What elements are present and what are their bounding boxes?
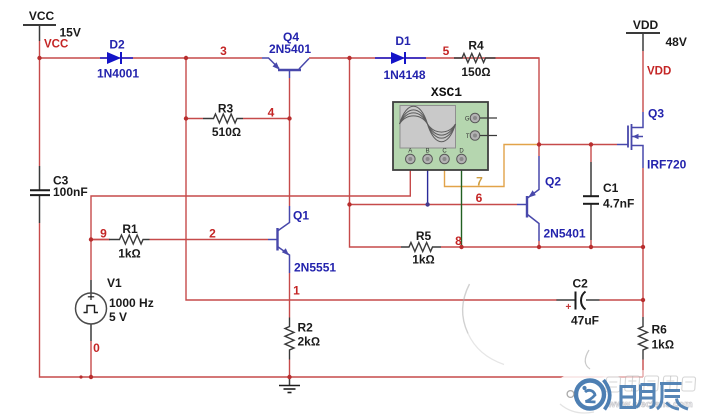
svg-text:6: 6 <box>476 191 483 205</box>
svg-text:R4: R4 <box>468 39 484 53</box>
svg-text:9: 9 <box>100 227 107 241</box>
svg-text:D1: D1 <box>395 34 411 48</box>
svg-text:0: 0 <box>93 341 100 355</box>
svg-text:VDD: VDD <box>647 66 671 78</box>
svg-text:15V: 15V <box>60 26 81 40</box>
svg-text:T: T <box>466 134 470 140</box>
svg-text:100nF: 100nF <box>53 185 88 199</box>
svg-text:2N5401: 2N5401 <box>269 42 311 56</box>
svg-text:D: D <box>459 149 464 155</box>
svg-text:Q3: Q3 <box>648 107 664 121</box>
svg-text:VCC: VCC <box>44 39 68 51</box>
svg-text:B: B <box>426 149 430 155</box>
svg-text:R3: R3 <box>218 102 234 116</box>
svg-text:R6: R6 <box>652 323 668 337</box>
svg-text:G: G <box>465 117 470 123</box>
svg-text:C1: C1 <box>603 181 619 195</box>
svg-text:C2: C2 <box>573 277 589 291</box>
svg-text:1000 Hz: 1000 Hz <box>109 296 154 310</box>
svg-text:+: + <box>566 302 572 313</box>
svg-text:1N4001: 1N4001 <box>97 67 139 81</box>
svg-text:VDD: VDD <box>633 18 659 32</box>
svg-text:150Ω: 150Ω <box>461 65 490 79</box>
svg-text:R5: R5 <box>416 229 432 243</box>
svg-text:1kΩ: 1kΩ <box>118 247 141 261</box>
svg-text:2: 2 <box>209 227 216 241</box>
svg-text:510Ω: 510Ω <box>212 125 241 139</box>
svg-text:Q2: Q2 <box>545 175 561 189</box>
svg-text:1: 1 <box>293 284 300 298</box>
svg-text:8: 8 <box>455 234 462 248</box>
svg-text:V1: V1 <box>107 276 122 290</box>
svg-text:4: 4 <box>268 106 275 120</box>
svg-text:1kΩ: 1kΩ <box>412 253 435 267</box>
svg-text:2N5401: 2N5401 <box>544 227 586 241</box>
svg-text:A: A <box>408 149 412 155</box>
svg-text:1kΩ: 1kΩ <box>652 338 675 352</box>
svg-text:R2: R2 <box>298 321 314 335</box>
svg-text:4.7nF: 4.7nF <box>603 197 634 211</box>
svg-text:C: C <box>442 149 447 155</box>
svg-text:48V: 48V <box>666 35 687 49</box>
svg-text:47uF: 47uF <box>571 314 599 328</box>
svg-text:VCC: VCC <box>29 9 55 23</box>
svg-text:3: 3 <box>220 44 227 58</box>
svg-text:2kΩ: 2kΩ <box>298 335 321 349</box>
svg-text:7: 7 <box>476 175 483 189</box>
svg-text:2N5551: 2N5551 <box>294 261 336 275</box>
svg-text:D2: D2 <box>109 38 125 52</box>
svg-text:XSC1: XSC1 <box>431 85 462 100</box>
svg-text:1N4148: 1N4148 <box>383 68 425 82</box>
svg-text:5: 5 <box>443 44 450 58</box>
svg-text:5 V: 5 V <box>109 310 127 324</box>
svg-text:R1: R1 <box>122 222 138 236</box>
svg-text:Q1: Q1 <box>293 209 309 223</box>
svg-text:IRF720: IRF720 <box>647 158 687 172</box>
